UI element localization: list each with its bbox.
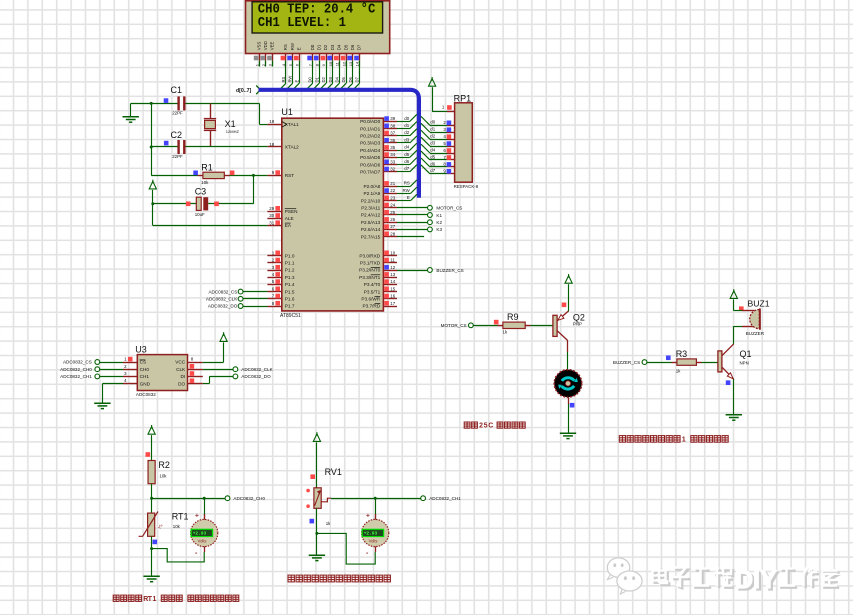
svg-text:CH1 LEVEL: 1: CH1 LEVEL: 1 (258, 16, 346, 31)
svg-text:P2.2/A10: P2.2/A10 (361, 198, 381, 203)
svg-text:RS: RS (404, 181, 410, 186)
wire P0.1 net d1 to bus (397, 128, 410, 130)
svg-text:P0.1/AD1: P0.1/AD1 (360, 126, 380, 131)
svg-text:RW: RW (288, 76, 293, 83)
svg-text:28: 28 (390, 231, 395, 236)
svg-text:22: 22 (390, 188, 395, 193)
wire P0.7 net d7 to bus (397, 171, 410, 173)
ground (motor) (560, 433, 576, 438)
svg-text:P1.6: P1.6 (285, 297, 295, 302)
svg-text:29: 29 (269, 206, 274, 211)
LCD pin 6 (299, 54, 301, 61)
svg-text:U1: U1 (281, 107, 293, 117)
svg-text:D1: D1 (314, 76, 319, 82)
svg-text:12MHZ: 12MHZ (226, 129, 240, 134)
svg-text:RST: RST (285, 173, 295, 178)
ground (Q1) (726, 415, 742, 420)
U1 pin 9 RST (267, 175, 281, 177)
svg-text:DO: DO (178, 381, 185, 386)
vertical rail left (151, 103, 153, 175)
motor (554, 370, 582, 398)
svg-text:C1: C1 (171, 85, 183, 95)
annotation: buzzer note (619, 435, 728, 444)
svg-text:D7: D7 (355, 76, 360, 82)
U1 pin 19 XTAL1 (267, 124, 281, 126)
svg-text:D2: D2 (323, 44, 328, 50)
capacitor C2 (177, 140, 179, 154)
svg-text:ADC0832_CS: ADC0832_CS (208, 289, 237, 294)
power VCC (buzzer) (730, 289, 737, 298)
svg-text:ADC0832_CLK: ADC0832_CLK (206, 297, 238, 302)
svg-text:22PF: 22PF (172, 154, 183, 159)
svg-text:13: 13 (348, 61, 353, 66)
LCD pin 11 (339, 54, 341, 61)
wire Q1 emitter to ground (733, 379, 735, 415)
svg-text:P2.5/A13: P2.5/A13 (361, 220, 381, 225)
U1 pin 36 P0.3/AD3 (383, 142, 397, 144)
svg-text:25: 25 (390, 210, 395, 215)
U1 pin 33 P0.6/AD6 (383, 164, 397, 166)
U1 pin 23 P2.2/A10 (383, 200, 397, 202)
svg-text:P3.5/T1: P3.5/T1 (364, 289, 381, 294)
svg-text:d2: d2 (404, 130, 409, 135)
U3 pin 6 DO (188, 383, 203, 385)
junction meter2 plus (374, 497, 377, 500)
svg-text:D4: D4 (337, 44, 342, 50)
svg-text:CH1: CH1 (140, 374, 150, 379)
U1 pin 29 PSEN (267, 211, 281, 213)
svg-text:D5: D5 (341, 76, 346, 82)
RP1 pin 7 net d5 (447, 159, 455, 161)
wire LCD D0 to bus (312, 67, 314, 84)
U3 pin 5 DI (188, 376, 203, 378)
svg-text:D3: D3 (328, 76, 333, 82)
svg-text:+2.93: +2.93 (193, 531, 207, 537)
U3 pin 1 CS (123, 362, 137, 364)
RP1 pin 2 net d0 (447, 125, 455, 127)
svg-text:XTAL2: XTAL2 (285, 145, 299, 150)
wire LCD D6 to bus (352, 67, 354, 84)
junction C3/VCC rail (151, 202, 154, 205)
U1 pin 27 P2.6/A14 (383, 229, 397, 231)
wire to voltmeter2 minus (317, 533, 375, 564)
voltmeter (gas level) (375, 498, 377, 519)
svg-text:18: 18 (269, 142, 274, 147)
svg-text:RT1: RT1 (172, 512, 189, 522)
svg-text:U3: U3 (135, 345, 147, 355)
wire LCD D4 to bus (339, 67, 341, 84)
svg-text:P3.3/INT1: P3.3/INT1 (359, 275, 380, 280)
U1 pin 1 P1.0 (267, 255, 281, 257)
RP1 pin 6 net d4 (447, 153, 455, 155)
svg-text:d5: d5 (430, 154, 435, 159)
svg-text:K1: K1 (436, 213, 442, 218)
U1 pin 4 P1.3 (267, 277, 281, 279)
wire to voltmeter1 minus (152, 549, 205, 562)
LCD pin 7 (312, 54, 314, 61)
terminal ADC0832_DO (233, 374, 238, 379)
svg-text:P1.0: P1.0 (285, 253, 295, 258)
wire RV1 to ground (316, 508, 318, 555)
svg-text:P2.3/A11: P2.3/A11 (361, 206, 380, 211)
svg-text:E: E (296, 47, 301, 50)
terminal ADC0832_CS (U3 side) (100, 362, 123, 364)
wire LCD D1 to bus (319, 67, 321, 84)
svg-text:d2: d2 (430, 134, 435, 139)
svg-text:Q1: Q1 (740, 349, 752, 359)
svg-text:P0.4/AD4: P0.4/AD4 (360, 148, 380, 153)
terminal ADC0832_DO (U1 side) (243, 306, 267, 308)
U1 pin 38 P0.1/AD1 (383, 128, 397, 130)
svg-text:BUZZER: BUZZER (746, 331, 765, 336)
svg-text:BUZZER_CS: BUZZER_CS (613, 360, 640, 365)
svg-text:BUZZER_CS: BUZZER_CS (436, 268, 463, 273)
svg-text:1k: 1k (326, 521, 331, 526)
svg-text:33: 33 (390, 159, 395, 164)
svg-text:P2.4/A12: P2.4/A12 (361, 213, 381, 218)
svg-text:d3: d3 (430, 140, 435, 145)
U1 pin 13 P3.3/INT1 (383, 277, 397, 279)
svg-text:R2: R2 (158, 460, 170, 470)
U1 pin 12 P3.2/INT0 (383, 270, 397, 272)
svg-text:P0.3/AD3: P0.3/AD3 (360, 141, 380, 146)
resistor R3 (672, 362, 677, 364)
U3 pin 7 CLK (188, 369, 203, 371)
U1 pin 10 P3.0/RXD (383, 255, 397, 257)
U1 pin 3 P1.2 (267, 270, 281, 272)
svg-text:ADC0832_DO: ADC0832_DO (208, 304, 238, 309)
buzzer BUZ1 (734, 310, 742, 312)
svg-text:24: 24 (390, 203, 395, 208)
watermark wechat icon (607, 558, 642, 594)
wire P2.1 net RW to bus (397, 193, 411, 195)
voltmeter (temperature) (204, 498, 206, 519)
svg-text:CS: CS (140, 360, 147, 365)
RP1 pin 3 net d1 (447, 132, 455, 134)
U1 pin 14 P3.4/T0 (383, 284, 397, 286)
svg-text:D4: D4 (334, 76, 339, 82)
wire P0.0 net d0 to bus (397, 121, 410, 123)
svg-text:R3: R3 (676, 349, 688, 359)
U1 pin 26 P2.5/A13 (383, 222, 397, 224)
LCD pin 2 (265, 54, 267, 61)
svg-text:E: E (294, 80, 299, 83)
svg-text:RESPACK-8: RESPACK-8 (454, 184, 479, 189)
terminal ADC0832_CS (U1 side) (243, 291, 267, 293)
svg-text:P0.5/AD5: P0.5/AD5 (360, 155, 380, 160)
svg-text:ADC0832_CH0: ADC0832_CH0 (233, 496, 265, 501)
svg-text:R9: R9 (507, 312, 519, 322)
svg-text:10: 10 (390, 250, 395, 255)
svg-text:31: 31 (269, 220, 274, 225)
svg-text:P3.1/TXD: P3.1/TXD (360, 261, 381, 266)
svg-text:D7: D7 (357, 44, 362, 50)
U3 pin 4 GND (123, 383, 137, 385)
U1 pin 16 P3.6/WR (383, 298, 397, 300)
svg-text:MOTOR_CS: MOTOR_CS (436, 206, 462, 211)
svg-text:14: 14 (355, 61, 360, 66)
svg-text:P3.2/INT0: P3.2/INT0 (359, 268, 380, 273)
U1 pin 7 P1.6 (267, 298, 281, 300)
svg-text:+2.93: +2.93 (364, 531, 378, 537)
svg-text:D6: D6 (348, 76, 353, 82)
svg-text:10: 10 (328, 61, 333, 66)
U1 pin 22 P2.1/A9 (383, 193, 397, 195)
op: ADC U3 ADC0832 body (137, 355, 187, 391)
svg-text:d1: d1 (404, 123, 409, 128)
svg-text:P0.6/AD6: P0.6/AD6 (360, 162, 380, 167)
junction (150, 102, 153, 105)
svg-text:13: 13 (390, 272, 395, 277)
RV1 wiper (321, 498, 331, 502)
svg-text:RW: RW (290, 42, 295, 50)
wire RT1 to ground (151, 536, 153, 576)
svg-text:P2.7/A15: P2.7/A15 (361, 234, 381, 239)
crystal X1 (210, 103, 212, 118)
resistor R1 (151, 175, 197, 177)
svg-text:GND: GND (140, 381, 151, 386)
svg-text:10k: 10k (173, 524, 181, 529)
U1 pin 37 P0.2/AD2 (383, 135, 397, 137)
wire to ADC0832_CH0 terminal (152, 498, 225, 500)
svg-text:d0: d0 (404, 116, 409, 121)
LCD pin 3 (272, 54, 274, 61)
svg-text:P3.7/RD: P3.7/RD (362, 304, 380, 309)
U1 pin 18 XTAL2 (267, 146, 281, 148)
svg-text:Volts: Volts (369, 539, 378, 544)
ground (RT1) (143, 576, 159, 581)
svg-text:36: 36 (390, 138, 395, 143)
junction RT1/meter (150, 547, 153, 550)
wire LCD D7 to bus (359, 67, 361, 84)
wire P2.2 net E to bus (397, 200, 411, 202)
svg-text:K3: K3 (436, 227, 442, 232)
bus entry arrow (256, 85, 260, 94)
junction meter plus (203, 497, 206, 500)
U1 pin 17 P3.7/RD (383, 306, 397, 308)
power VCC (near C3) (149, 180, 156, 189)
power VCC (RP1) (429, 77, 436, 86)
svg-text:ALE: ALE (285, 216, 294, 221)
svg-text:34: 34 (390, 152, 395, 157)
svg-text:+: + (366, 513, 370, 520)
terminal MOTOR_CS (397, 207, 427, 209)
svg-text:DI: DI (181, 374, 186, 379)
RP1 pin 8 net d6 (447, 166, 455, 168)
wire P2.7 stub (397, 236, 424, 238)
svg-text:d6: d6 (404, 159, 409, 164)
annotation: RT1 note (113, 595, 239, 603)
terminal ADC0832_CH0 (225, 496, 230, 501)
svg-text:D0: D0 (310, 44, 315, 50)
wire LCD RS to bus (285, 67, 287, 84)
resistor R9 (498, 325, 503, 327)
RP1 pin 4 net d2 (447, 139, 455, 141)
svg-text:27: 27 (390, 224, 395, 229)
svg-text:1: 1 (153, 596, 157, 603)
terminal ADC0832_CH1 (421, 496, 426, 501)
svg-text:RW: RW (403, 188, 411, 193)
potentiometer RV1 (314, 488, 321, 509)
svg-text:P1.4: P1.4 (285, 282, 295, 287)
XTAL1 clock mark (282, 122, 286, 127)
svg-text:VDD: VDD (263, 41, 268, 50)
wire Q1 collector to buzzer (733, 326, 735, 344)
svg-text:11: 11 (390, 258, 395, 263)
svg-text:d4: d4 (430, 147, 435, 152)
junction R2/RT1/CH0 (150, 497, 153, 500)
U1 pin 21 P2.0/A8 (383, 186, 397, 188)
svg-text:10k: 10k (159, 473, 167, 478)
resistor pack RP1 body (455, 103, 473, 182)
wire XTAL2 row (151, 146, 178, 148)
wire LCD D2 to bus (326, 67, 328, 84)
thermistor RT1 (148, 513, 155, 536)
U1 pin 31 EA (267, 225, 281, 227)
svg-text:30: 30 (269, 213, 274, 218)
svg-text:P0.7/AD7: P0.7/AD7 (360, 170, 380, 175)
wire LCD D3 to bus (332, 67, 334, 84)
ground (U3) (94, 403, 110, 408)
svg-text:MOTOR_CS: MOTOR_CS (441, 323, 467, 328)
svg-text:VEE: VEE (270, 41, 275, 50)
LCD pin 14 (359, 54, 361, 61)
svg-text:NPN: NPN (740, 361, 749, 366)
svg-text:d0: d0 (430, 120, 435, 125)
svg-text:15: 15 (390, 286, 395, 291)
wire LCD E to bus (299, 67, 301, 84)
wire P0.4 net d4 to bus (397, 150, 410, 152)
svg-text:C2: C2 (171, 130, 183, 140)
svg-text:12: 12 (341, 61, 346, 66)
LCD pin 8 (319, 54, 321, 61)
svg-text:VSS: VSS (256, 41, 261, 50)
RP1 pin 5 net d3 (447, 146, 455, 148)
svg-text:BUZ1: BUZ1 (748, 299, 770, 309)
U1 pin 15 P3.5/T1 (383, 291, 397, 293)
svg-text:P1.7: P1.7 (285, 304, 295, 309)
svg-text:D3: D3 (330, 44, 335, 50)
svg-text:PSEN: PSEN (285, 209, 298, 214)
wire U3 GND (102, 383, 123, 385)
svg-text:D1: D1 (316, 44, 321, 50)
svg-text:-t°: -t° (158, 524, 163, 530)
resistor R2 (148, 461, 155, 484)
transistor Q2 PNP (553, 315, 557, 336)
svg-text:10uF: 10uF (195, 212, 205, 217)
terminal K3 (397, 229, 427, 231)
wire P2.0 net RS to bus (397, 186, 411, 188)
svg-text:19: 19 (269, 119, 274, 124)
svg-text:ADC0832: ADC0832 (136, 392, 156, 397)
svg-text:ADC0832_DO: ADC0832_DO (241, 374, 271, 379)
terminal K2 (397, 222, 427, 224)
wire Q2 collector to motor (567, 341, 569, 352)
svg-text:ADC0832_CLK: ADC0832_CLK (241, 367, 273, 372)
wire P0.3 net d3 to bus (397, 142, 410, 144)
wire VCC rail to EA (152, 204, 154, 226)
svg-text:35: 35 (390, 145, 395, 150)
wire motor to ground (568, 397, 570, 404)
svg-text:ADC0832_CH0: ADC0832_CH0 (60, 367, 92, 372)
LCD pin 10 (332, 54, 334, 61)
svg-text:EA: EA (285, 223, 292, 228)
wire R1 to C3 branch (253, 175, 255, 203)
U1 pin 30 ALE (267, 218, 281, 220)
terminal ADC0832_CH1 (U3 side) (100, 376, 123, 378)
svg-text:10k: 10k (201, 180, 209, 185)
svg-text:D0: D0 (308, 76, 313, 82)
svg-text:CH0: CH0 (140, 367, 150, 372)
svg-text:16: 16 (390, 294, 395, 299)
LCD screen (252, 2, 383, 33)
terminal ADC0832_CLK (U1 side) (243, 298, 267, 300)
wire P0.5 net d5 to bus (397, 157, 410, 159)
svg-text:14: 14 (390, 279, 395, 284)
U1 pin 24 P2.3/A11 (383, 207, 397, 209)
op: MCU U1 AT89C51 body (282, 118, 384, 311)
svg-text:2: 2 (479, 423, 483, 430)
wire RV1 wiper to ADC0832_CH1 terminal (331, 498, 421, 500)
svg-text:P2.1/A9: P2.1/A9 (364, 191, 381, 196)
svg-text:P1.2: P1.2 (285, 268, 295, 273)
svg-text:22PF: 22PF (172, 111, 183, 116)
U3 pin 8 VCC (188, 362, 203, 364)
svg-text:VCC: VCC (175, 360, 186, 365)
U1 pin 11 P3.1/TXD (383, 262, 397, 264)
svg-text:K2: K2 (436, 220, 442, 225)
svg-text:26: 26 (390, 217, 395, 222)
wire XTAL1 row (131, 103, 178, 105)
U1 pin 2 P1.1 (267, 262, 281, 264)
svg-text:ADC0832_CH1: ADC0832_CH1 (429, 496, 461, 501)
U1 pin 32 P0.7/AD7 (383, 171, 397, 173)
U3 pin 3 CH1 (123, 376, 137, 378)
svg-text:P1.5: P1.5 (285, 289, 295, 294)
svg-text:1: 1 (682, 435, 686, 444)
wire P0.6 net d6 to bus (397, 164, 410, 166)
svg-text:P2.0/A8: P2.0/A8 (364, 184, 381, 189)
wire U3 DO to terminal (203, 383, 210, 385)
power VCC (R2) (148, 425, 155, 434)
watermark logo text (655, 569, 735, 589)
svg-text:R1: R1 (201, 163, 213, 173)
terminal ADC0832_CLK (233, 367, 238, 372)
U1 pin 6 P1.5 (267, 291, 281, 293)
ground (RV1) (309, 555, 325, 560)
svg-text:AT89C51: AT89C51 (280, 313, 301, 319)
svg-text:ADC0832_CS: ADC0832_CS (63, 360, 92, 365)
U1 pin 8 P1.7 (267, 306, 281, 308)
svg-text:X1: X1 (225, 119, 236, 129)
U1 pin 34 P0.5/AD5 (383, 157, 397, 159)
terminal BUZZER_CS (Q1 side) (642, 360, 647, 365)
annotation: RV1 note (288, 575, 390, 582)
LCD pin 9 (326, 54, 328, 61)
svg-text:P0.2/AD2: P0.2/AD2 (360, 134, 380, 139)
svg-text:12: 12 (390, 265, 395, 270)
power VCC (Q2) (565, 274, 572, 283)
bus d[0..7] (259, 90, 419, 198)
RP1 pin 9 net d7 (447, 173, 455, 175)
power VCC (U3) (220, 332, 227, 341)
wire LCD D5 to bus (346, 67, 348, 84)
svg-text:23: 23 (390, 195, 395, 200)
svg-text:1k: 1k (676, 368, 681, 373)
svg-text:C3: C3 (195, 186, 207, 196)
terminal K1 (397, 214, 427, 216)
U1 pin 35 P0.4/AD4 (383, 150, 397, 152)
